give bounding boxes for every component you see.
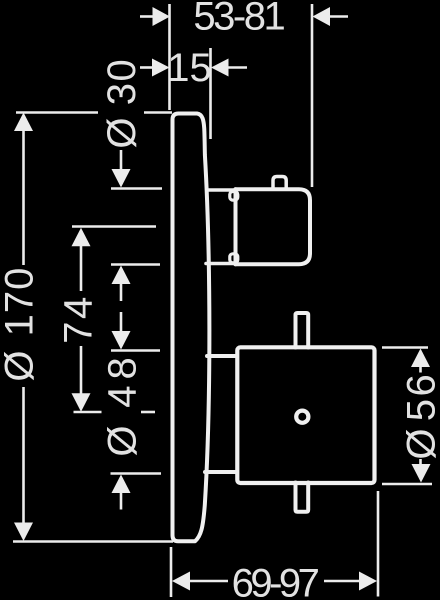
svg-text:15: 15	[167, 46, 212, 90]
svg-text:53-81: 53-81	[193, 0, 284, 39]
svg-text:74: 74	[56, 294, 100, 344]
svg-text:48: 48	[100, 351, 144, 408]
svg-text:56: 56	[399, 372, 440, 422]
svg-text:Ø: Ø	[0, 350, 41, 381]
svg-text:69-97: 69-97	[232, 562, 319, 600]
svg-text:Ø: Ø	[100, 425, 144, 456]
svg-text:170: 170	[0, 267, 41, 337]
svg-text:30: 30	[100, 58, 144, 106]
svg-text:Ø: Ø	[100, 117, 144, 148]
svg-text:Ø: Ø	[399, 428, 440, 459]
